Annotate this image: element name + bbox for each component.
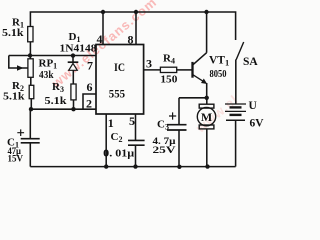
diode D1: [68, 62, 79, 70]
wire node B horizontal: [30, 108, 96, 110]
pin 3 stub: [144, 69, 161, 71]
motor M: [197, 104, 215, 129]
transistor Q1 base bar: [191, 62, 193, 78]
node B R3: [71, 107, 75, 111]
node A D1: [71, 53, 75, 57]
node ground C3: [177, 165, 181, 169]
pin 5 stub / C2 wire: [135, 114, 137, 167]
wire C3 vertical: [178, 98, 180, 167]
node pin8 top: [134, 10, 138, 14]
resistor R1: [28, 27, 33, 42]
node pin4 top: [101, 10, 105, 14]
wire battery bottom: [235, 121, 237, 167]
capacitor C1 plates: [21, 139, 40, 143]
wire C1 vertical: [29, 109, 31, 166]
svg-text:3: 3: [146, 56, 152, 70]
svg-text:5.1k: 5.1k: [3, 92, 25, 103]
svg-text:5.1k: 5.1k: [2, 28, 24, 39]
svg-text:555: 555: [109, 87, 125, 101]
node emitter C3: [205, 96, 209, 100]
svg-text:1N4148: 1N4148: [60, 43, 97, 54]
node B R2: [29, 107, 33, 111]
transistor Q1 emitter arrow: [193, 75, 205, 83]
svg-text:D1: D1: [69, 31, 81, 44]
wire node A horizontal: [9, 55, 96, 57]
pin 8 stub: [135, 12, 137, 45]
svg-text:1: 1: [108, 116, 114, 130]
svg-text:6V: 6V: [250, 115, 264, 129]
wire R3 bottom: [73, 100, 75, 109]
wire emitter node to C3: [179, 97, 207, 99]
svg-text:43k: 43k: [39, 69, 54, 81]
svg-text:M: M: [201, 110, 212, 124]
wire D1 to R3: [72, 70, 74, 84]
svg-text:8: 8: [128, 33, 134, 47]
wire R2 bottom: [30, 99, 32, 110]
wire top rail: [30, 12, 235, 40]
watermark: [49, 0, 160, 90]
battery U plates: [225, 104, 246, 120]
resistor R3: [71, 84, 76, 100]
wire RP1 to R2: [29, 56, 31, 86]
resistor R4: [160, 67, 176, 72]
svg-text:IC: IC: [114, 60, 125, 74]
wire collector: [193, 12, 207, 65]
switch SA blade: [236, 42, 244, 60]
svg-text:6: 6: [87, 80, 93, 94]
capacitor C3 plates: [167, 125, 187, 130]
svg-text:0. 01µ: 0. 01µ: [103, 148, 134, 159]
pin 4 stub: [102, 12, 104, 45]
svg-text:U: U: [249, 100, 258, 112]
wire motor bottom: [206, 129, 208, 167]
wire bottom rail: [30, 166, 235, 168]
svg-text:4: 4: [97, 32, 103, 46]
svg-text:C2: C2: [111, 131, 123, 144]
svg-text:15V: 15V: [8, 155, 24, 165]
node A RP1: [28, 53, 32, 57]
svg-text:R4: R4: [163, 52, 175, 65]
svg-text:150: 150: [160, 73, 178, 85]
svg-text:5: 5: [129, 114, 135, 128]
wire emitter vertical: [206, 83, 208, 98]
resistor R2: [29, 85, 34, 98]
capacitor C3 plus sign: [169, 112, 176, 119]
node ground motor: [205, 164, 209, 168]
svg-text:R3: R3: [52, 81, 64, 94]
pin 1 stub: [105, 114, 107, 167]
watermark 2: [193, 92, 241, 136]
wire SA lower: [235, 60, 237, 104]
svg-text:7: 7: [87, 58, 93, 72]
op-amp/timer IC U1 555 box: [96, 45, 144, 115]
potentiometer RP1 wiper arrow: [17, 65, 24, 71]
svg-text:C3: C3: [157, 118, 169, 131]
svg-text:SA: SA: [243, 56, 258, 68]
capacitor C2 plates: [128, 140, 145, 145]
node ground pin1: [104, 164, 108, 168]
svg-text:5.1k: 5.1k: [45, 96, 67, 107]
svg-text:VT1: VT1: [209, 54, 229, 67]
wire motor top: [206, 98, 208, 104]
capacitor C1 plus sign: [17, 129, 24, 136]
wire R4 to base: [177, 69, 193, 71]
wire R1 bottom: [29, 42, 31, 56]
svg-text:2: 2: [86, 97, 92, 111]
potentiometer RP1 body: [28, 59, 33, 78]
svg-text:8050: 8050: [210, 69, 227, 80]
wire pin6 pin2 link: [83, 94, 96, 109]
wire RP1 wiper bracket: [9, 56, 28, 69]
node ground C2: [133, 164, 137, 168]
svg-text:25V: 25V: [153, 146, 176, 156]
wire D1 stub: [72, 56, 74, 62]
node collector top: [204, 10, 208, 14]
